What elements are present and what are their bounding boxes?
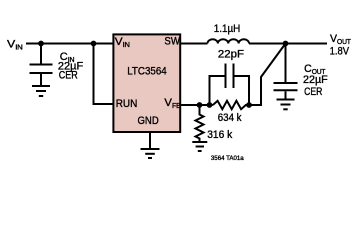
input label VIN — [7, 38, 23, 51]
svg-text:VOUT: VOUT — [330, 33, 352, 46]
CIN value 22uF — [58, 61, 84, 73]
IC name LTC3564 — [127, 66, 167, 78]
wire SW to inductor — [181, 43, 208, 45]
resistor R1 634k — [213, 101, 249, 109]
capacitor CIN name label — [60, 51, 75, 64]
ground (316k) — [192, 142, 207, 151]
svg-text:LTC3564: LTC3564 — [127, 66, 167, 78]
svg-text:CER: CER — [304, 86, 322, 98]
svg-text:634 k: 634 k — [218, 113, 242, 125]
inductor value 1.1uH — [214, 24, 241, 36]
COUT type CER — [304, 86, 322, 98]
node RUN tie junction — [91, 41, 97, 47]
resistor value 634k — [218, 113, 242, 125]
node VOUT junction — [283, 41, 289, 47]
wire VIN rail — [26, 43, 113, 45]
COUT value 22uF — [303, 74, 328, 86]
svg-text:3564 TA01a: 3564 TA01a — [211, 155, 244, 162]
node parallel left — [207, 102, 213, 108]
IC U1 LTC3564 box — [113, 34, 180, 132]
capacitor CIN — [30, 44, 53, 86]
ground (CIN) — [32, 86, 50, 96]
wire VFB — [181, 104, 213, 106]
inductor L1 1.1uH — [208, 39, 250, 43]
resistor value 316k — [207, 128, 233, 140]
svg-text:22pF: 22pF — [218, 49, 244, 61]
capacitor COUT — [274, 44, 298, 99]
svg-text:316 k: 316 k — [207, 128, 233, 140]
figure tag 3564 TA01a — [211, 155, 244, 162]
cap value 22pF — [218, 49, 244, 61]
CIN type CER — [59, 70, 78, 82]
output value 1.8V — [330, 46, 350, 58]
ground (GND pin) — [141, 149, 160, 158]
node parallel right — [246, 102, 252, 108]
IC pin label SW — [164, 36, 180, 48]
IC pin label VIN — [115, 36, 130, 49]
svg-text:22µF: 22µF — [303, 74, 328, 86]
svg-text:1.1µH: 1.1µH — [214, 24, 241, 36]
IC pin label RUN — [116, 98, 138, 111]
wire VOUT node to output — [286, 43, 328, 45]
ground (COUT) — [277, 100, 295, 110]
wire GND pin — [149, 132, 151, 148]
node FB 316k tap — [197, 102, 203, 108]
wire inductor to VOUT node — [249, 43, 286, 45]
svg-text:1.8V: 1.8V — [330, 46, 350, 58]
svg-text:RUN: RUN — [116, 98, 138, 111]
output label VOUT — [330, 33, 352, 46]
capacitor COUT name label — [304, 63, 326, 76]
IC pin label VFB — [164, 97, 181, 110]
node input junction — [38, 41, 44, 47]
svg-text:GND: GND — [138, 115, 159, 127]
wire RUN tie — [94, 44, 114, 105]
capacitor C2 22pF — [210, 64, 250, 106]
wire feedback diagonal — [249, 44, 286, 106]
svg-text:SW: SW — [164, 36, 180, 48]
IC pin label GND — [138, 115, 159, 127]
svg-text:CER: CER — [59, 70, 78, 82]
svg-text:VIN: VIN — [7, 38, 23, 51]
resistor R2 316k — [196, 105, 204, 142]
